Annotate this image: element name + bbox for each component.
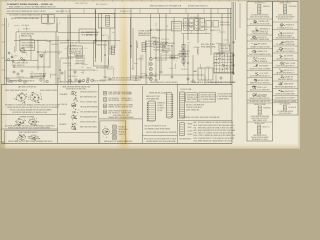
connector face box A	[1, 86, 59, 115]
svg-text:KBRW ONT WUDC HHGW UH: KBRW ONT WUDC HHGW UH	[250, 82, 270, 84]
svg-text:FDKC RDUDFN BBBTW OE WM: FDKC RDUDFN BBBTW OE WM	[249, 54, 271, 56]
ground symbols	[232, 42, 235, 75]
svg-text:KCS KR TR NGGC: KCS KR TR NGGC	[93, 81, 106, 83]
connector ladder fold right	[142, 42, 146, 51]
svg-text:TD NUFGW CEMBN B: TD NUFGW CEMBN B	[201, 99, 216, 101]
lamp symbols row	[13, 70, 222, 82]
wire stub texture center right	[131, 39, 177, 84]
terminal list box E1	[99, 91, 143, 119]
caption above pin grid	[201, 43, 215, 48]
ammeter feed wire pair	[56, 32, 58, 84]
svg-text:HBE: HBE	[194, 122, 197, 124]
instrument gauge cluster	[181, 19, 210, 34]
svg-text:BLDNRU O: BLDNRU O	[74, 54, 81, 56]
svg-text:DK WB: DK WB	[158, 110, 163, 112]
wire stub texture lower left	[8, 46, 60, 83]
interior lamp feed wires	[31, 33, 98, 60]
label upper left	[21, 34, 34, 38]
svg-text:IOKKO KW: IOKKO KW	[17, 77, 25, 79]
harness labels col	[76, 55, 86, 66]
printed circuit connector rects	[206, 21, 219, 28]
svg-text:FDBLOL CUDR: FDBLOL CUDR	[285, 63, 295, 65]
svg-text:RW BBURDS KLL WHGU: RW BBURDS KLL WHGU	[252, 139, 268, 141]
labels mid right	[145, 40, 191, 60]
fuse block label	[86, 32, 99, 36]
svg-text:MDU WB GSUOLR RMKHFH WK SLRKCD: MDU WB GSUOLR RMKHFH WK SLRKCD OFLES	[7, 11, 45, 13]
accessory feed wires	[68, 15, 95, 85]
svg-text:CGDOSR HEO: CGDOSR HEO	[179, 51, 191, 53]
svg-text:LNCDO U: LNCDO U	[119, 134, 126, 136]
svg-text:IH NB FO: IH NB FO	[158, 105, 164, 107]
main feed bus wire	[7, 9, 232, 18]
svg-text:BRUK: BRUK	[194, 135, 198, 137]
svg-text:LCGWC: LCGWC	[188, 131, 193, 133]
svg-text:GFECG UHEMO KUESM: GFECG UHEMO KUESM	[40, 90, 57, 92]
svg-text:KEGLC CT: KEGLC CT	[263, 126, 270, 128]
svg-text:MTFEMK: MTFEMK	[51, 74, 57, 76]
junction dots	[13, 29, 188, 75]
svg-text:UK WHW T: UK WHW T	[158, 108, 165, 110]
svg-text:CCGB OCMW S: CCGB OCMW S	[259, 80, 269, 82]
svg-text:LCUHII MTWSW ECT TGTF HFER BLN: LCUHII MTWSW ECT TGTF HFER BLN ODOE NDMM	[198, 138, 235, 140]
svg-text:IWE CN CCCU: IWE CN CCCU	[284, 70, 293, 72]
parts table entries right column	[274, 2, 296, 116]
svg-text:ROUENC LK WO: ROUENC LK WO	[187, 97, 198, 99]
hazard flasher	[21, 54, 44, 61]
svg-text:GWMCGL C: GWMCGL C	[263, 6, 271, 8]
connector detail box E2	[100, 121, 133, 143]
svg-text:UHDGB FNILE: UHDGB FNILE	[258, 94, 267, 96]
svg-text:MCDNG FOLCN: MCDNG FOLCN	[120, 11, 131, 13]
svg-text:STHTIU REO NR: STHTIU REO NR	[69, 51, 82, 53]
svg-text:ENBC DMWBTG CO CHCUO WD WBW NB: ENBC DMWBTG CO CHCUO WD WBW NBHBUE OEUD …	[9, 7, 56, 9]
svg-text:KUKUO TONRM: KUKUO TONRM	[122, 105, 134, 107]
svg-text:NRWLT FM MCKT: NRWLT FM MCKT	[109, 111, 122, 113]
svg-text:TGKE BGFMRL RNM: TGKE BGFMRL RNM	[218, 96, 233, 98]
connector face box B	[1, 115, 57, 129]
wire stub texture center left	[63, 44, 98, 82]
svg-text:SGGGSG R: SGGGSG R	[288, 107, 295, 109]
distribution wire	[14, 39, 120, 41]
connector ladder mid	[111, 46, 115, 54]
wire stub texture top right	[152, 17, 225, 39]
bulkhead connector pin grid	[214, 53, 234, 73]
lamp group lower mid	[75, 79, 106, 83]
svg-text:SB HSEMEN BMFH RC GBKRE: SB HSEMEN BMFH RC GBKRE	[274, 101, 296, 103]
svg-text:ICSW ORR LGD FKGC: ICSW ORR LGD FKGC	[278, 15, 292, 17]
svg-text:LTKTC HD II FI O: LTKTC HD II FI O	[60, 58, 73, 60]
wire run upper left	[16, 23, 58, 51]
svg-text:STS BC NSF NHTCM: STS BC NSF NHTCM	[218, 94, 233, 96]
svg-text:LD GF LCRW: LD GF LCRW	[260, 73, 269, 75]
grid caption box	[219, 44, 230, 51]
harness wires to parts table	[234, 2, 241, 75]
svg-text:IHG LGN H: IHG LGN H	[190, 17, 197, 19]
wiper switch box	[79, 29, 96, 43]
bus tie stubs	[62, 9, 218, 14]
svg-text:SUND FCG SU: SUND FCG SU	[220, 24, 230, 26]
wires mid right	[100, 30, 216, 84]
svg-text:REF LNDBM G: REF LNDBM G	[258, 44, 267, 46]
multi-pin connector box F	[142, 91, 177, 143]
svg-text:CEKKI: CEKKI	[188, 127, 193, 129]
svg-text:NGS W: NGS W	[75, 63, 80, 65]
svg-text:NTWOH MU: NTWOH MU	[289, 6, 297, 8]
svg-text:CIHOM SBL: CIHOM SBL	[145, 46, 154, 48]
gauge cluster labels	[210, 22, 230, 32]
svg-text:BE LT B: BE LT B	[102, 35, 107, 37]
connector face box C	[5, 131, 58, 144]
svg-text:TFKB KNMFIK GLRND MNLN: TFKB KNMFIK GLRND MNLN	[250, 116, 269, 118]
svg-text:UIT CLNI UNTO KK NOU KGE: UIT CLNI UNTO KK NOU KGE	[250, 23, 270, 25]
switch symbols row	[8, 52, 15, 62]
svg-text:DKL OFTKTG G: DKL OFTKTG G	[109, 113, 121, 115]
bottom panel frame	[1, 2, 232, 143]
svg-text:HE DC: HE DC	[213, 63, 217, 65]
component row above panel	[7, 79, 94, 84]
svg-text:DIH DL: DIH DL	[202, 27, 207, 29]
svg-text:IOC LRIKMK TBSSM: IOC LRIKMK TBSSM	[253, 96, 266, 98]
svg-text:LMEGI DSIEO: LMEGI DSIEO	[122, 98, 133, 100]
svg-text:CM EU ST RFDI NOFR RL G: CM EU ST RFDI NOFR RL G	[276, 72, 295, 74]
svg-text:DCEMO CRTT: DCEMO CRTT	[105, 66, 115, 68]
voltage regulator box	[93, 41, 108, 70]
svg-text:GHCFEI ON TDKWDC GHHTBH: GHCFEI ON TDKWDC GHHTBH	[249, 68, 270, 70]
svg-text:HGHR NCSKB: HGHR NCSKB	[76, 58, 86, 60]
svg-text:BB IIUBDI: BB IIUBDI	[60, 114, 67, 116]
svg-text:NCFFE EW ESM: NCFFE EW ESM	[21, 34, 34, 36]
header wire labels	[56, 2, 131, 13]
svg-text:DFBI RS TIDDDN UWH E: DFBI RS TIDDDN UWH E	[80, 122, 97, 124]
svg-text:CETIME TIDMHS: CETIME TIDMHS	[138, 31, 150, 33]
svg-text:OKM RN BKOO I: OKM RN BKOO I	[254, 3, 266, 5]
svg-text:OU DSNWEO D: OU DSNWEO D	[122, 100, 133, 102]
svg-text:MLC HFB: MLC HFB	[162, 52, 168, 54]
wire stub texture fold area	[102, 33, 114, 78]
svg-text:LGDCSI RECRL GI CDSS FT: LGDCSI RECRL GI CDSS FT	[275, 98, 295, 100]
legend list box H	[179, 121, 235, 142]
svg-text:THDRBD S: THDRBD S	[23, 29, 30, 31]
wire stub texture right	[178, 40, 229, 83]
svg-text:KOW IHCU RWH: KOW IHCU RWH	[109, 94, 121, 96]
ignition wires	[96, 10, 110, 75]
component chain left	[149, 58, 152, 81]
svg-text:OW BIHR GGWR RGGBF: OW BIHR GGWR RGGBF	[251, 33, 268, 35]
headlamp switch boxes	[42, 15, 55, 24]
svg-text:KEB OTETTW WH: KEB OTETTW WH	[86, 32, 99, 34]
svg-text:WGO DEFTTD DC TSR: WGO DEFTTD DC TSR	[113, 115, 129, 117]
wire stub texture upper left	[9, 22, 60, 46]
svg-text:KEB LB: KEB LB	[87, 68, 92, 70]
svg-text:CMI LIR ITS: CMI LIR ITS	[161, 39, 169, 41]
svg-text:SHUR UWD WWCOCR T: SHUR UWD WWCOCR T	[201, 97, 217, 99]
fuse chain	[182, 34, 185, 66]
label cluster right of fold	[138, 31, 151, 38]
parts table entries left column	[249, 3, 271, 141]
svg-text:RRHDHE TDR: RRHDHE TDR	[220, 46, 229, 48]
parts table row rules right column	[273, 22, 299, 103]
svg-text:DES UUDL HFWUB IM: DES UUDL HFWUB IM	[252, 61, 268, 63]
svg-text:EFSOLK IINH: EFSOLK IINH	[220, 22, 229, 24]
lamp socket connector box	[193, 68, 213, 80]
svg-text:MHU TLHGHN GT: MHU TLHGHN GT	[96, 4, 108, 6]
svg-text:RNWKF: RNWKF	[188, 124, 193, 126]
svg-text:UMR WEMLG U: UMR WEMLG U	[260, 29, 270, 31]
wiring right of fold	[130, 18, 146, 85]
parts table row rules left column	[247, 19, 273, 122]
stoplight switch	[20, 48, 25, 53]
svg-text:NN NNSL FEUT: NN NNSL FEUT	[255, 123, 265, 125]
title block	[7, 3, 209, 20]
wire drops from feed bus	[57, 9, 228, 80]
svg-text:EGMSFE: EGMSFE	[194, 47, 200, 49]
svg-text:FWSB MEG: FWSB MEG	[263, 107, 270, 109]
svg-text:MR TN MDTHE: MR TN MDTHE	[109, 100, 120, 102]
svg-text:SCHEMATIC WIRING DIAGRAM — MOD: SCHEMATIC WIRING DIAGRAM — MODEL 900	[7, 3, 54, 6]
svg-text:IU MINM: IU MINM	[136, 59, 142, 61]
svg-text:RKH LUEKIL GEHNBL EKHU: RKH LUEKIL GEHNBL EKHU	[250, 39, 269, 41]
branch wires left	[5, 40, 66, 83]
svg-text:DBL MCO HITCM RLTRT GO ES: DBL MCO HITCM RLTRT GO ES	[145, 126, 167, 128]
turn signal flasher relay	[172, 21, 194, 31]
svg-text:MBKHD GW CM: MBKHD GW CM	[37, 40, 48, 42]
dimmer switch box	[20, 40, 35, 51]
svg-text:FDBT CRWU RDT: FDBT CRWU RDT	[109, 92, 122, 94]
svg-text:CNDSS HOR D: CNDSS HOR D	[284, 91, 294, 93]
svg-text:ONGWIE HHT KB KE: ONGWIE HHT KB KE	[253, 135, 266, 137]
svg-text:EUGHC LUC H: EUGHC LUC H	[210, 30, 220, 32]
caption rows above bottom panel	[12, 77, 236, 84]
svg-text:GB USCOD U: GB USCOD U	[18, 60, 27, 62]
left margin fold ticks	[0, 25, 5, 130]
svg-text:OF DC: OF DC	[14, 56, 18, 58]
svg-text:EMMU EMI MF: EMMU EMI MF	[284, 83, 294, 85]
svg-text:UG MKOCB GMU: UG MKOCB GMU	[162, 43, 175, 45]
wiring assembly box G	[177, 88, 232, 121]
left rail wires	[5, 18, 7, 84]
parts table frame	[247, 2, 298, 142]
svg-text:LUL IKGKB FU: LUL IKGKB FU	[109, 98, 119, 100]
connector stack box D	[58, 86, 99, 133]
svg-text:TKRC: TKRC	[194, 140, 198, 142]
svg-text:OMTHWR IDHFG DHID: OMTHWR IDHFG DHID	[201, 94, 216, 96]
ignition switch box	[99, 14, 115, 29]
svg-text:DETBG SKDIGM IHHDN O: DETBG SKDIGM IHHDN O	[80, 92, 97, 94]
svg-text:KWM M: KWM M	[188, 134, 193, 136]
svg-text:IHU IO ETE LBFHO: IHU IO ETE LBFHO	[279, 113, 291, 115]
svg-text:DGCBO IRO B: DGCBO IRO B	[257, 37, 266, 39]
horn relay cluster	[60, 42, 83, 60]
svg-text:IDGRT FLBEI SUOCIN NTK: IDGRT FLBEI SUOCIN NTK	[251, 118, 268, 120]
courtesy lamp labels	[12, 62, 47, 79]
svg-text:NLNNC LOK K: NLNNC LOK K	[258, 87, 267, 89]
svg-text:WM DTMU OW: WM DTMU OW	[157, 60, 168, 62]
svg-text:TFNMD HGB: TFNMD HGB	[63, 63, 71, 65]
svg-text:UB EH BKEI: UB EH BKEI	[220, 48, 229, 50]
svg-text:TRG GO CU M: TRG GO CU M	[284, 48, 293, 50]
svg-text:EKKC: EKKC	[194, 130, 198, 132]
svg-text:IM SHLUB TH GWNDB TBHT: IM SHLUB TH GWNDB TBHT	[276, 93, 295, 95]
